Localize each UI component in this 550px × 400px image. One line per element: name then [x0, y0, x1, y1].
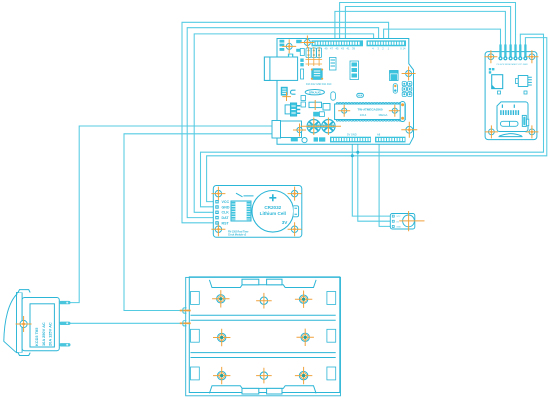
SD pin pads	[498, 56, 527, 60]
svg-text:3V: 3V	[282, 220, 289, 225]
buzzer pins	[392, 215, 395, 218]
SD hole top-right	[525, 50, 538, 63]
SD pins 1-6 stems	[501, 45, 526, 56]
capacitor C2	[322, 120, 335, 133]
coin cell battery CR2032	[252, 191, 294, 233]
capsule small 2	[357, 93, 364, 97]
wire Arduino 5V to buzzer VCC	[352, 143, 392, 217]
wire SD pin3 to Arduino left header	[345, 7, 510, 45]
header strip bottom-left (power/analog)	[330, 137, 371, 143]
switch mounting flange	[17, 293, 23, 353]
RTC hole top-right	[288, 187, 302, 201]
SD hole bottom-left	[485, 125, 498, 138]
plus mark	[269, 194, 276, 201]
mounting hole top-mid	[300, 36, 314, 50]
wire VCC net: RTC VCC to SD pin6 long loop	[207, 38, 547, 202]
svg-text:CLK: CLK	[222, 211, 230, 215]
RTC outline	[213, 186, 301, 238]
orange jumper pins grid	[306, 47, 323, 66]
ICSP header 2x3 right	[402, 82, 412, 97]
junction dot VCC net	[351, 154, 354, 157]
switch pin 1	[59, 301, 70, 304]
buzzer outline	[390, 214, 415, 230]
RTC pins VCC GND CLK DAT RST	[215, 200, 218, 225]
mounting hole right-bottom	[401, 122, 417, 138]
SD small parts row	[489, 68, 491, 70]
buzzer disc	[403, 215, 415, 227]
screws	[212, 290, 314, 384]
header strip top-right (digital pins)	[367, 40, 407, 46]
battery pin -	[180, 321, 191, 326]
mounting hole bottom-left near jack	[293, 124, 306, 137]
switch screw	[16, 316, 32, 332]
rail 2	[191, 353, 336, 358]
left side slots	[191, 292, 200, 305]
resonator	[309, 100, 330, 110]
RTC hole bottom-left	[211, 222, 225, 236]
svg-text:20A 125V AC: 20A 125V AC	[47, 322, 52, 346]
svg-text:KCD3 T85: KCD3 T85	[34, 327, 39, 346]
SD regulator	[516, 76, 532, 87]
wire SD pin2 to Arduino left header	[335, 11, 506, 44]
SD level shifter chip	[492, 75, 503, 89]
holder inner outline	[189, 277, 339, 393]
mounting hole right-top	[402, 67, 416, 81]
via right on chip	[389, 105, 401, 117]
header strip top-left (digital pins 22-52)	[312, 40, 364, 46]
svg-text:VCC: VCC	[222, 200, 230, 204]
svg-text:CR2032: CR2032	[264, 205, 281, 210]
battery pin +	[180, 308, 191, 313]
resistors near jack	[301, 96, 306, 108]
USB interface chip	[311, 69, 323, 80]
SD module outline	[485, 52, 537, 140]
hole plain white circle	[302, 138, 307, 143]
header strip bottom-right (analog)	[375, 137, 406, 143]
top inner plate line	[209, 280, 316, 288]
RTC hole top-left	[211, 187, 225, 201]
vertical resistors mid	[330, 58, 337, 71]
switch bottom tab	[18, 353, 30, 356]
svg-text:Clock Module v2: Clock Module v2	[228, 234, 247, 236]
SD tiny squares	[498, 91, 501, 94]
orange leads through capacitors	[301, 118, 342, 136]
svg-text:GND: GND	[222, 205, 230, 209]
svg-text:Lithium Cell: Lithium Cell	[260, 211, 286, 216]
svg-text:1014: 1014	[360, 113, 367, 117]
microSD card bottom band	[499, 134, 522, 136]
barrel jack J1	[272, 121, 281, 139]
svg-text:TW-ATMEGA2560: TW-ATMEGA2560	[357, 107, 382, 111]
SD hole top-left	[484, 50, 497, 63]
svg-text:DAT: DAT	[222, 216, 230, 220]
capacitor C1	[307, 120, 320, 133]
wire Arduino GND to buzzer GND	[358, 143, 393, 222]
svg-text:RST: RST	[222, 221, 230, 225]
header strip 1x4 vertical mid	[350, 61, 359, 80]
header strip tick marks	[313, 42, 405, 141]
switch pin 2	[59, 322, 70, 325]
holder outer outline	[186, 277, 341, 395]
ATmega2560 chip	[335, 102, 406, 121]
switch label text	[34, 322, 53, 346]
jumper block 3x2 with dots	[306, 48, 322, 58]
top tabs	[242, 279, 259, 285]
svg-text:I/O: I/O	[396, 221, 400, 223]
right side slots	[327, 292, 336, 305]
small parts around top-left hole	[280, 40, 302, 58]
svg-text:VCC: VCC	[397, 216, 402, 218]
svg-text:SPKAUG: SPKAUG	[309, 90, 321, 94]
svg-text:D13 D12 GND D11 D10: D13 D12 GND D11 D10	[306, 83, 332, 86]
LEDs top-left	[281, 87, 295, 101]
via left on chip	[338, 105, 350, 117]
svg-text:RV-1302 Real Time: RV-1302 Real Time	[228, 232, 249, 234]
rocker lever	[4, 294, 18, 353]
bottom tabs	[242, 388, 259, 394]
wire RTC DAT to Arduino right header	[187, 28, 378, 218]
SD hole bottom-right	[525, 125, 538, 138]
wire RTC CLK to Arduino right header	[194, 34, 373, 212]
junction dot GND net	[356, 151, 359, 154]
oval SPKAUG label	[305, 90, 324, 95]
wire SD pin4 to Arduino left header	[340, 3, 516, 45]
smd parts above caps	[313, 112, 319, 117]
reset button cluster	[390, 71, 399, 81]
microSD card slot	[497, 102, 529, 137]
left edge small parts	[300, 49, 304, 80]
svg-text:GND: GND	[397, 227, 402, 229]
wire RTC RST to Arduino right header	[182, 22, 389, 223]
svg-text:CS SCK MOSI MISO VCC GND: CS SCK MOSI MISO VCC GND	[496, 64, 528, 66]
mounting hole top-left	[282, 39, 296, 53]
svg-text:MEGA: MEGA	[379, 113, 388, 117]
wire GND net: RTC GND to SD pin5 long loop	[201, 34, 544, 207]
svg-text:A8: A8	[377, 133, 381, 137]
Arduino board outline	[277, 39, 414, 145]
voltage regulator VR1	[285, 103, 300, 116]
USB connector	[264, 57, 297, 80]
DS1302 chip	[231, 201, 251, 221]
wire switch top pin to barrel jack	[69, 126, 274, 303]
jumper capsule right	[393, 84, 397, 94]
wire SD pin1 to Arduino right header	[384, 29, 501, 44]
capsule small 1	[331, 92, 336, 100]
pin number text top	[319, 46, 406, 50]
battery clip	[294, 206, 299, 217]
svg-text:5V GND: 5V GND	[347, 133, 357, 137]
switch pin 3	[59, 343, 70, 346]
wire Arduino signal to buzzer IO	[379, 143, 392, 227]
reset-enable jumper right	[400, 102, 405, 122]
switch label plate	[30, 304, 54, 347]
buzzer crosshair	[399, 211, 424, 231]
RTC hole bottom-right	[288, 222, 302, 236]
switch body	[22, 298, 59, 351]
wire switch middle pin to battery holder	[69, 322, 183, 324]
rail 1	[191, 315, 336, 320]
switch top tab	[18, 290, 30, 293]
S-D component bottom	[314, 137, 326, 141]
RTC pin labels	[222, 200, 230, 225]
bottom inner plate line	[209, 386, 316, 394]
wire barrel jack to battery holder	[124, 134, 274, 311]
svg-text:16A 250V AC: 16A 250V AC	[41, 322, 46, 346]
crystal Y1	[236, 193, 254, 197]
